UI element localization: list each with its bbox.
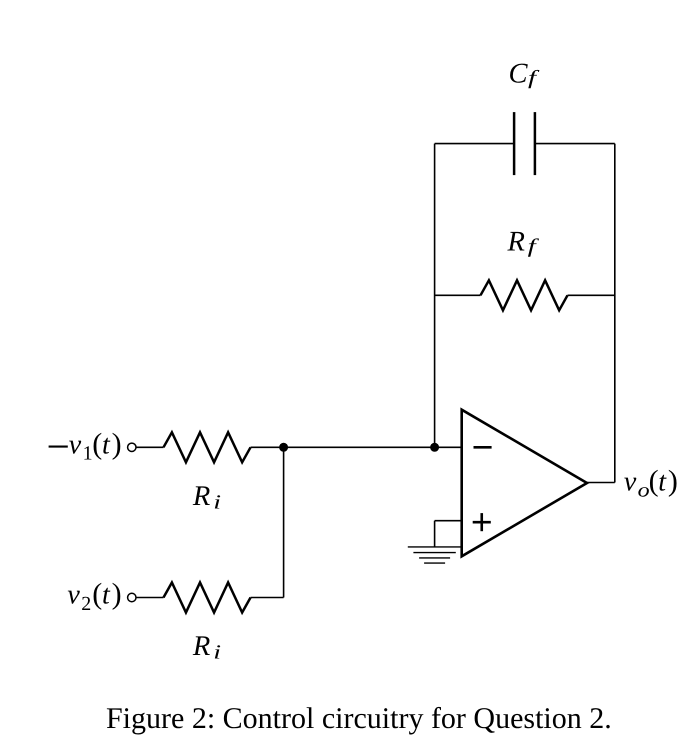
svg-text:): )	[112, 578, 122, 611]
caption Figure 2	[106, 702, 612, 735]
wire resistor Ri top to op-amp inverting input	[251, 446, 462, 448]
label R_f	[507, 226, 540, 257]
svg-text:): )	[112, 428, 122, 461]
svg-text:(: (	[92, 578, 102, 611]
label -v1(t)	[49, 428, 122, 465]
svg-text:v: v	[69, 430, 82, 461]
wire input2 circle to resistor	[136, 597, 164, 599]
svg-text:t: t	[102, 430, 111, 461]
resistor R_f	[481, 280, 568, 310]
wire op-amp output	[587, 482, 615, 484]
capacitor C_f	[514, 112, 535, 175]
svg-text:R: R	[192, 481, 210, 512]
wire Rf rail right	[568, 294, 615, 296]
svg-text:f: f	[528, 67, 540, 89]
node A junction with feedback branch	[430, 443, 439, 452]
svg-text:R: R	[507, 226, 525, 257]
svg-text:2: 2	[81, 593, 91, 615]
wire top rail right of Cf	[535, 143, 615, 145]
label vo(t)	[624, 465, 678, 502]
wire from node A up to feedback branch (left vertical)	[434, 144, 436, 448]
node junction of Ri resistors	[279, 443, 288, 452]
svg-text:i: i	[213, 491, 221, 513]
label v2(t)	[67, 578, 121, 615]
ground	[408, 547, 462, 563]
svg-text:t: t	[102, 580, 111, 611]
wire input1 circle to resistor	[136, 446, 164, 448]
wire Rf rail left	[435, 294, 481, 296]
op-amp inverting input marker (minus)	[474, 446, 492, 449]
svg-text:(: (	[92, 428, 102, 461]
terminal input 2 (open circle)	[128, 593, 136, 601]
label C_f	[509, 59, 540, 90]
wire right vertical (feedback to output)	[614, 144, 616, 483]
wire non-inverting input to ground drop	[435, 521, 462, 547]
svg-text:(: (	[649, 465, 659, 498]
resistor R_i (bottom)	[164, 583, 251, 613]
svg-text:t: t	[658, 467, 667, 498]
label R_i (bottom)	[192, 631, 221, 664]
wire resistor Ri bottom to vertical riser	[251, 597, 284, 599]
op-amp U1 triangle	[462, 410, 587, 557]
op-amp non-inverting input marker (plus)	[473, 513, 491, 531]
label R_i (top)	[192, 481, 221, 514]
svg-text:C: C	[509, 59, 529, 90]
svg-text:v: v	[67, 580, 80, 611]
resistor R_i (top)	[164, 432, 251, 462]
wire top rail left of Cf	[435, 143, 514, 145]
svg-text:v: v	[624, 467, 637, 498]
wire vertical riser from input2 to junction	[283, 447, 285, 597]
terminal input 1 (open circle)	[128, 443, 136, 451]
svg-text:f: f	[528, 235, 540, 257]
svg-text:1: 1	[83, 443, 93, 465]
svg-text:R: R	[192, 631, 210, 662]
svg-text:i: i	[213, 642, 221, 664]
svg-text:): )	[668, 465, 678, 498]
svg-text:Figure 2: Control circuitry fo: Figure 2: Control circuitry for Question…	[106, 702, 612, 735]
